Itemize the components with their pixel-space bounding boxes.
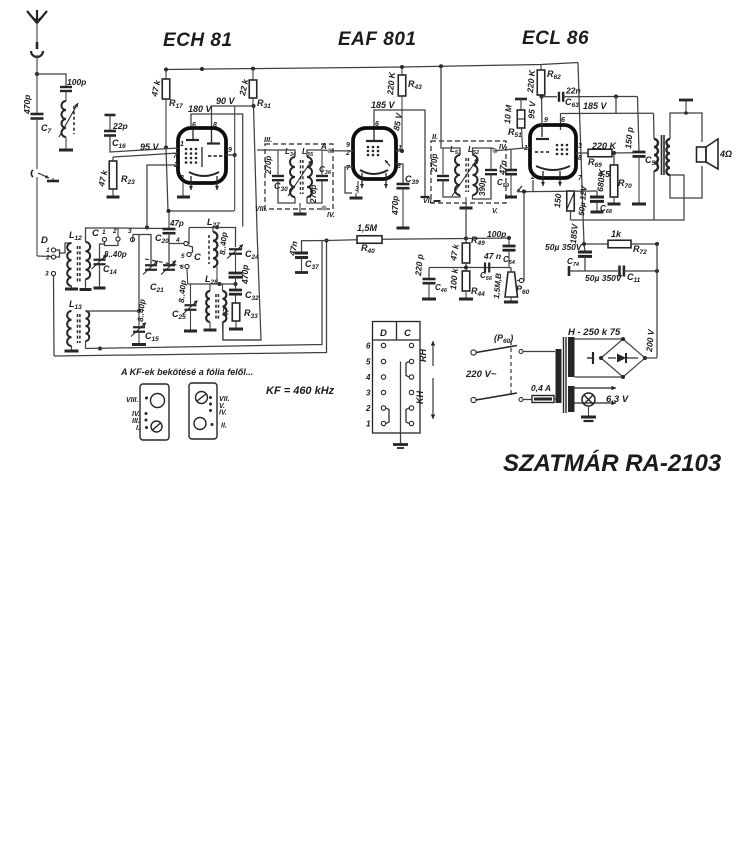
trimmer C25 8..40p (172, 280, 198, 322)
svg-text:100 k: 100 k (448, 267, 460, 290)
wire C14 top (100, 244, 105, 260)
switch D label (41, 235, 48, 246)
ground under C15 (132, 332, 146, 345)
trimmer C24 8..40p (227, 245, 259, 262)
wire L28 right bottom (223, 322, 262, 340)
ground bar under C37 (295, 258, 308, 273)
rectifier plus mark (587, 352, 593, 364)
connector plate 2 (189, 383, 217, 439)
terminal R51 top (515, 98, 527, 101)
switch C label (92, 228, 99, 239)
svg-text:C37: C37 (305, 259, 319, 271)
speaker (697, 139, 733, 169)
wire oscillator junction line (188, 283, 236, 285)
power transformer primary (556, 349, 562, 403)
svg-text:10 M: 10 M (502, 104, 514, 125)
label C21 (150, 282, 164, 294)
label 85V (391, 111, 404, 131)
tube ECL86 pin6 label (561, 117, 565, 124)
node IFII grey (492, 144, 507, 153)
label L51 (450, 145, 461, 156)
plate2 dots (209, 396, 214, 426)
wire AVC bus upper (86, 241, 323, 349)
switch D bridge 1-2 (56, 250, 60, 257)
wire C24 to 470p (235, 254, 237, 273)
label 95 V (140, 142, 160, 152)
svg-text:1: 1 (46, 247, 50, 254)
node C15 junction (137, 309, 141, 313)
tuning gang C21 section b (161, 261, 176, 275)
label 90V (216, 96, 236, 106)
ground under L28 left (204, 322, 217, 330)
table contacts C (409, 343, 413, 425)
svg-text:D: D (380, 328, 387, 339)
svg-text:VII.: VII. (219, 396, 230, 403)
svg-text:1: 1 (180, 141, 184, 148)
IF I tuning arrow (288, 160, 312, 196)
terminal above C16 (105, 114, 116, 117)
potentiometer P60 1.5M (492, 272, 530, 299)
fuse 0,4A (531, 383, 554, 403)
wire EAF grid line (330, 150, 353, 152)
capacitor C32 (229, 290, 259, 302)
tube ECH81 pin6 anode bar (186, 122, 199, 140)
label L27 (207, 217, 220, 229)
wire R69 to C58 (612, 152, 634, 154)
tube ECH81 cathode (189, 172, 219, 176)
wire EAF pin1 R43 (396, 149, 404, 153)
tube EAF801 pin labels (345, 142, 402, 193)
label L28 (205, 274, 218, 286)
wire L27 top line (189, 227, 236, 247)
ground under P60 (504, 297, 518, 302)
svg-text:R51: R51 (508, 127, 522, 139)
connector plate 1 (140, 384, 169, 440)
svg-text:C20: C20 (155, 233, 169, 245)
wire D3 down to AVC bus (53, 276, 56, 356)
svg-text:220 p: 220 p (413, 254, 425, 278)
svg-text:47n: 47n (497, 160, 508, 176)
switch C bridge 1-2 (105, 242, 119, 246)
svg-text:4: 4 (175, 237, 180, 244)
tube ECL86 pentode dots (556, 144, 569, 156)
wire AVC bus lower (54, 241, 327, 357)
switch D contact 3 (45, 271, 56, 278)
svg-text:6: 6 (366, 342, 371, 351)
svg-text:C36: C36 (319, 165, 332, 176)
node R31 90V (252, 104, 256, 108)
label L13 (69, 299, 82, 311)
node grid line ECL (614, 95, 618, 99)
svg-text:R33: R33 (244, 308, 258, 320)
wire anode to C63 (542, 96, 558, 98)
antenna plug connector (31, 42, 43, 74)
svg-text:ECL 86: ECL 86 (522, 28, 589, 49)
svg-text:SZATMÁR RA-2103: SZATMÁR RA-2103 (503, 449, 722, 477)
tube ECL86 pin labels (524, 143, 583, 182)
node wiper join (522, 190, 526, 194)
ground under antenna coil (59, 146, 73, 150)
svg-text:D: D (41, 235, 48, 246)
capacitor C11 (620, 266, 641, 285)
node bus L13 (98, 347, 102, 351)
resistor 150 cathode (552, 191, 574, 211)
svg-text:100p: 100p (487, 229, 506, 239)
svg-text:9: 9 (544, 117, 548, 124)
wire AF line (429, 263, 509, 270)
wire pin9 to anode node (541, 97, 544, 125)
IF can II border (431, 141, 506, 203)
tube ECH81 g3 dashes (208, 155, 222, 157)
wire antenna to D (37, 255, 51, 258)
switch D contact 2 (45, 255, 56, 262)
wire wiper up to ECL86 grid (523, 192, 526, 281)
table contacts D (381, 343, 385, 425)
chassis connector arrow (31, 170, 49, 178)
node pin9 junction (233, 153, 237, 157)
coil L35 (307, 157, 312, 197)
svg-text:8: 8 (213, 122, 217, 129)
svg-text:1: 1 (366, 420, 371, 429)
tube EAF801 grid dots (367, 146, 380, 157)
capacitor C74 (567, 244, 592, 268)
svg-text:IV.: IV. (327, 212, 335, 219)
wire EAF pin8 C39 (396, 164, 403, 184)
svg-text:II.: II. (221, 423, 227, 430)
svg-text:KF = 460 kHz: KF = 460 kHz (266, 385, 335, 397)
wire 90V screen line (212, 106, 254, 130)
svg-text:2: 2 (530, 174, 535, 181)
rectifier bridge (599, 337, 647, 379)
tube ECL86 cathode (536, 166, 570, 170)
ground under R44 (459, 291, 473, 299)
label 220V~ (465, 369, 497, 380)
svg-text:R17: R17 (169, 98, 183, 110)
wire pentode anode feedback line (571, 175, 685, 220)
node antenna junction (35, 72, 39, 76)
coil L27 (209, 232, 217, 267)
wire lower mains to fuse (523, 399, 532, 401)
ground under C68 (591, 201, 604, 212)
label 50u 350V b (585, 273, 623, 283)
svg-text:220 K: 220 K (525, 69, 537, 94)
svg-text:VII.: VII. (423, 198, 434, 205)
ground under C59 (505, 174, 517, 197)
wire ECH81 pin2 oscillator grid (147, 165, 178, 228)
svg-text:C68: C68 (600, 204, 613, 215)
mains switch lower contact (519, 398, 523, 402)
node R70 top (612, 151, 616, 155)
switch table box (373, 322, 421, 434)
svg-text:185V: 185V (568, 222, 580, 244)
svg-text:C15: C15 (145, 331, 159, 343)
svg-text:3: 3 (578, 143, 582, 150)
svg-text:9: 9 (346, 142, 350, 149)
P60 wiper (517, 278, 524, 282)
svg-text:C63: C63 (565, 97, 579, 109)
svg-text:R70: R70 (618, 178, 632, 190)
svg-text:L34: L34 (285, 147, 296, 158)
node triode anode (540, 95, 544, 99)
tube ECH81 pin3 ground (177, 183, 190, 197)
svg-text:III.: III. (264, 135, 272, 144)
tube ECL86 cathode arrows (541, 171, 562, 186)
wire 470p junction (235, 277, 237, 290)
label L12 (69, 230, 82, 242)
svg-text:L35: L35 (302, 147, 314, 158)
capacitor C20 47p (155, 211, 184, 245)
svg-text:270p: 270p (430, 154, 439, 173)
svg-text:270p: 270p (264, 156, 273, 175)
svg-text:A KF-ek bekötésé a fólia felől: A KF-ek bekötésé a fólia felől... (120, 367, 253, 377)
wire C2 up (117, 228, 119, 237)
resistor R62 220k (525, 65, 561, 97)
svg-text:50µ 350V: 50µ 350V (545, 242, 583, 252)
capacitor C46 220p (413, 254, 448, 295)
wire C3 contact down (138, 235, 140, 312)
wire EAF pin7 (345, 167, 353, 193)
wire top supply bus (166, 63, 578, 70)
resistor R49 47k (448, 235, 485, 263)
label (P60) (494, 333, 513, 345)
svg-text:1,5M,B: 1,5M,B (492, 272, 503, 299)
wire C63 right (563, 96, 637, 98)
wire R17 bottom to screen corner (166, 148, 234, 212)
svg-text:47 k: 47 k (149, 78, 163, 98)
svg-text:50µ 350V: 50µ 350V (585, 273, 623, 283)
tube ECL86 pin9 stub (542, 117, 548, 137)
svg-text:3: 3 (366, 389, 371, 398)
wire secondary top ground (670, 113, 702, 142)
tube ECH81 cathode arrows (189, 176, 219, 190)
svg-text:IV.: IV. (132, 411, 140, 418)
wire 185V EAF line (374, 110, 425, 196)
svg-text:R43: R43 (408, 79, 422, 91)
plate1 screw circle (151, 421, 162, 432)
node padder junction (234, 282, 238, 286)
label 4,5V (597, 169, 617, 179)
IF II top wiring (441, 66, 460, 176)
svg-text:8..40p: 8..40p (218, 232, 229, 255)
wire grid coupling down (615, 97, 617, 114)
wire C21b top (168, 237, 170, 265)
svg-text:8..40p: 8..40p (136, 299, 147, 322)
wire HT top (575, 338, 624, 340)
svg-text:8: 8 (578, 155, 582, 162)
switch C contact 2 (112, 228, 120, 241)
node A grey (320, 142, 333, 153)
wire heater line 1 (575, 386, 617, 391)
label II (432, 132, 438, 141)
svg-text:4: 4 (365, 373, 371, 382)
wire 150 bottom (570, 211, 572, 220)
svg-text:50µ 12V: 50µ 12V (577, 185, 589, 216)
wire B+ rail down (578, 63, 584, 245)
svg-text:95 V: 95 V (526, 100, 538, 120)
plate2 labels (219, 396, 230, 430)
terminal left of C11 (568, 266, 571, 276)
wire L12 secondary top (86, 228, 119, 242)
wire 185V horizontal (561, 112, 654, 114)
node R17 bottom junction (167, 209, 171, 213)
capacitor IFII 270p (430, 154, 449, 181)
power transformer core (564, 337, 567, 413)
resistor R43 220k (385, 67, 422, 151)
wire cathode to C68 (571, 190, 598, 192)
label 185V under (0, 0, 1, 1)
svg-text:P60: P60 (516, 284, 530, 296)
IF II core (466, 158, 468, 192)
svg-text:C7: C7 (41, 123, 52, 135)
node IF I bottom grey (321, 205, 326, 210)
node osc grid line (145, 226, 149, 230)
resistor R44 100k (448, 267, 485, 298)
label 185V rail (568, 222, 580, 244)
node detector left (325, 239, 329, 243)
node R17 95V line (164, 146, 168, 150)
svg-text:C16: C16 (112, 138, 126, 150)
svg-text:7: 7 (346, 165, 351, 172)
label ECH 81 (163, 30, 233, 51)
rectifier diode (608, 353, 638, 363)
node det R49 (464, 237, 468, 241)
ground under L12 secondary (80, 287, 92, 290)
ground under lamp (581, 406, 596, 421)
svg-text:III.: III. (132, 418, 140, 425)
output transformer primary (654, 139, 658, 171)
svg-text:220 K: 220 K (385, 71, 397, 96)
svg-text:470p: 470p (390, 196, 400, 216)
svg-text:C11: C11 (627, 272, 641, 284)
wire triode cathode line (517, 180, 571, 192)
label H-250k75 (568, 327, 621, 338)
svg-text:VIII.: VIII. (255, 206, 268, 213)
wire C20 to switch contact 4 (169, 233, 184, 243)
capacitor C16 22p (104, 115, 128, 150)
antenna (27, 10, 47, 42)
switch C2 contact 5 (181, 252, 191, 260)
svg-text:C: C (404, 328, 411, 339)
plate2 big circle (194, 418, 206, 430)
node bus R43 (400, 65, 404, 69)
svg-text:VIII.: VIII. (126, 397, 139, 404)
wire C21a top (133, 235, 152, 266)
arrow KH (415, 378, 435, 419)
svg-text:2: 2 (45, 255, 50, 262)
note text (120, 367, 253, 377)
wire heater line 2 (575, 401, 617, 406)
tube ECH81 pin labels (173, 141, 232, 182)
svg-text:C56: C56 (480, 271, 493, 282)
IF I top wiring (257, 150, 295, 176)
svg-text:6: 6 (180, 264, 184, 271)
tube EAF801 envelope (353, 128, 396, 179)
label 180V (188, 104, 213, 114)
switch C contact 3 (128, 228, 135, 242)
svg-text:6: 6 (375, 121, 379, 128)
svg-text:150: 150 (552, 193, 563, 208)
IF II bottom wiring (443, 174, 491, 199)
dial lamp (582, 393, 595, 406)
wire C32 to R33 (235, 294, 237, 303)
coil L52 (473, 155, 478, 195)
capacitor C7 470p (22, 74, 52, 169)
label ECL 86 (522, 28, 589, 49)
capacitor 470p (229, 265, 251, 285)
wire L27 bottom to line (217, 267, 222, 286)
plate1 big circle (151, 394, 165, 408)
svg-text:H - 250 k 75: H - 250 k 75 (568, 327, 621, 338)
table wire to ground (393, 362, 408, 449)
tube ECH81 envelope (178, 128, 226, 183)
coil L13 secondary (86, 311, 90, 341)
wire B+ to output transformer (653, 113, 656, 139)
chassis mark above transformer (679, 100, 693, 115)
wire C11 line (569, 270, 618, 272)
wire R72 right (631, 243, 657, 245)
wire C25 top (190, 284, 192, 305)
coil L-ant tunable (59, 101, 78, 146)
label VII.T (423, 198, 441, 205)
ground under C14 (94, 284, 106, 288)
wire C74 bottom (584, 256, 586, 271)
label 200 V (644, 328, 656, 353)
svg-text:47 n: 47 n (483, 251, 501, 261)
wire rectifier output (645, 357, 657, 359)
switch link dashed (510, 341, 512, 397)
label III (264, 135, 272, 144)
gang link dashed (145, 259, 182, 266)
trimmer C15 8..40p (131, 299, 159, 344)
svg-text:22p: 22p (112, 121, 128, 131)
tube EAF801 cathode (360, 170, 388, 174)
wire D to L12 (60, 243, 72, 253)
output transformer secondary (666, 139, 670, 175)
switch C2 contact 6 (180, 264, 189, 271)
svg-text:C24: C24 (245, 249, 259, 261)
svg-text:R40: R40 (361, 243, 375, 255)
svg-text:C32: C32 (245, 290, 259, 302)
coil L12 primary (67, 243, 71, 286)
wire 200V rail (656, 244, 658, 358)
wire AF to P60 (509, 268, 511, 273)
wire secondary bottom loop (670, 166, 702, 198)
switch C2 contact 4 (175, 237, 188, 246)
coil L12 core (78, 246, 80, 283)
svg-text:I.: I. (136, 425, 140, 432)
node bus R31 (251, 67, 255, 71)
power transformer HT secondary (568, 337, 575, 377)
wire B+ node line (584, 243, 608, 245)
resistor R69 220k (588, 141, 618, 169)
svg-text:1,5M: 1,5M (357, 223, 378, 233)
ground under R23 (107, 189, 120, 197)
tube ECH81 screen line (201, 147, 203, 167)
svg-text:8..40p: 8..40p (104, 250, 127, 259)
switch C2 label (194, 252, 201, 263)
tube ECL86 triode anode bar (536, 138, 549, 140)
plate1 dots (145, 397, 149, 430)
switch D contact 1 (46, 247, 56, 254)
wire HT bottom (575, 376, 624, 378)
svg-text:C: C (194, 252, 201, 263)
wire 180V line pin6 (191, 114, 243, 227)
wire C14 bottom (99, 264, 101, 284)
IF II tuning arrow (452, 158, 478, 196)
node bus x441 (439, 64, 443, 68)
resistor R51 10M (502, 99, 525, 148)
coil L28 core (216, 294, 218, 319)
